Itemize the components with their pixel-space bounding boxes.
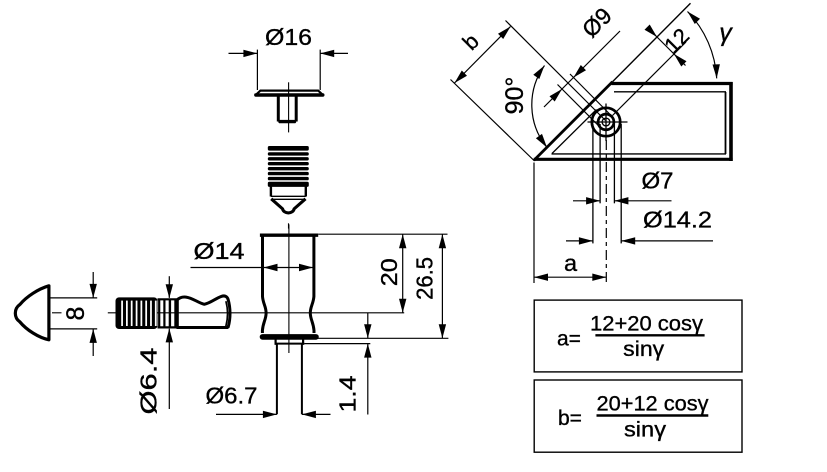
top reference line for 20 and 26.5 bbox=[318, 233, 447, 235]
dimension 1.4 arrows bbox=[367, 313, 369, 339]
cap stem bbox=[277, 97, 280, 122]
plug tip cone bbox=[271, 199, 305, 213]
svg-text:sinγ: sinγ bbox=[624, 418, 666, 442]
beam inner wall bottom bbox=[552, 153, 727, 155]
dimension Ø14 line and arrows bbox=[191, 267, 314, 269]
gamma angle arc with arrows bbox=[688, 12, 717, 79]
svg-text:a=: a= bbox=[557, 328, 581, 351]
dimension 26.5 line and arrows bbox=[441, 234, 443, 338]
dimension 12 line and arrows bbox=[648, 28, 686, 66]
svg-text:Ø6.7: Ø6.7 bbox=[206, 383, 258, 409]
dome nose part bbox=[15, 286, 49, 340]
line parallel to cut through hole center bbox=[613, 42, 687, 116]
body centerline bbox=[288, 224, 290, 353]
dimension a line and arrows bbox=[534, 276, 606, 278]
beam inner wall top bbox=[614, 91, 726, 93]
svg-text:26.5: 26.5 bbox=[412, 257, 438, 300]
reference line washer bottom / 1.4 bbox=[275, 343, 305, 345]
hole axis line bbox=[506, 21, 606, 121]
hole inner circle bbox=[602, 118, 610, 126]
dimension Ø6.4 arrows bbox=[168, 276, 170, 298]
plug chamfer lines bbox=[271, 195, 306, 197]
threaded plug thread bars bbox=[268, 146, 309, 151]
dimension 8 arrows bbox=[92, 272, 94, 298]
grip handle part bbox=[177, 296, 230, 328]
dimension Ø7 line and arrows bbox=[573, 200, 600, 202]
svg-text:Ø14: Ø14 bbox=[194, 238, 245, 264]
svg-text:12+20 cosγ: 12+20 cosγ bbox=[590, 312, 703, 336]
svg-text:Ø16: Ø16 bbox=[265, 24, 312, 50]
hole projection lines Ø7 bbox=[599, 124, 601, 203]
body right side with waist bbox=[310, 237, 314, 334]
hole outer circle Ø14.2 bbox=[592, 108, 620, 136]
svg-text:20+12 cosγ: 20+12 cosγ bbox=[597, 392, 709, 416]
beam top edge bbox=[612, 82, 733, 85]
svg-text:1.4: 1.4 bbox=[335, 375, 361, 412]
assembly centerline bbox=[52, 312, 62, 314]
body top edge bbox=[260, 233, 318, 236]
cut edge extension line bbox=[613, 3, 691, 81]
svg-text:Ø7: Ø7 bbox=[642, 168, 674, 194]
washer step below flange bbox=[275, 339, 277, 345]
cap centerline bbox=[288, 82, 290, 132]
body left side with waist bbox=[262, 237, 266, 334]
dimension b extension line at corner bbox=[451, 80, 535, 162]
dimension Ø9 line and arrows bbox=[544, 31, 620, 107]
grip end cap inner arc bbox=[226, 301, 228, 326]
hole centerline dashed bbox=[605, 140, 607, 283]
plug centerline dash bbox=[288, 223, 290, 228]
svg-text:b=: b= bbox=[558, 407, 582, 430]
extension lines Ø16 bbox=[256, 50, 258, 90]
dimension a extension line bbox=[533, 163, 535, 284]
dimension Ø6.7 line and arrows bbox=[216, 413, 277, 415]
dimension b line and arrows bbox=[455, 27, 511, 84]
svg-text:20: 20 bbox=[376, 258, 402, 286]
svg-text:90°: 90° bbox=[501, 77, 529, 115]
plug shank bbox=[270, 186, 272, 197]
hole projection lines Ø14.2 bbox=[592, 124, 594, 243]
dimension 8 extension lines bbox=[51, 297, 98, 299]
beam bottom edge bbox=[534, 158, 733, 161]
svg-text:8: 8 bbox=[62, 307, 90, 321]
formula box b bbox=[534, 380, 742, 452]
beam inner wall right bbox=[725, 92, 727, 154]
svg-text:sinγ: sinγ bbox=[623, 337, 664, 361]
beam right end edge bbox=[729, 82, 733, 161]
threaded rod bbox=[116, 297, 158, 329]
svg-text:γ: γ bbox=[719, 19, 733, 47]
svg-text:Ø14.2: Ø14.2 bbox=[643, 207, 712, 233]
svg-text:a: a bbox=[564, 250, 578, 276]
body bottom flange bbox=[263, 334, 317, 340]
reference line at 26.5 bottom / washer top bbox=[275, 337, 449, 339]
dimension Ø16 lines and arrows bbox=[229, 52, 258, 54]
mitre cut edge bbox=[534, 82, 613, 161]
dimension Ø14.2 line and arrows bbox=[566, 240, 593, 242]
inner wall cut line bbox=[552, 110, 597, 154]
hole middle circle Ø7 bbox=[598, 114, 614, 130]
hole crosshair bbox=[588, 121, 628, 123]
grooved neck section bbox=[158, 298, 178, 300]
cap head outline bbox=[256, 91, 322, 95]
dimension Ø9 extension lines tangent to hole bbox=[570, 74, 612, 116]
stem below body bbox=[276, 344, 278, 414]
dimension 20 line and arrows bbox=[402, 234, 404, 313]
svg-text:Ø6.4: Ø6.4 bbox=[136, 347, 162, 414]
formula box a bbox=[534, 300, 742, 372]
90 degree arc with arrows bbox=[532, 66, 547, 148]
